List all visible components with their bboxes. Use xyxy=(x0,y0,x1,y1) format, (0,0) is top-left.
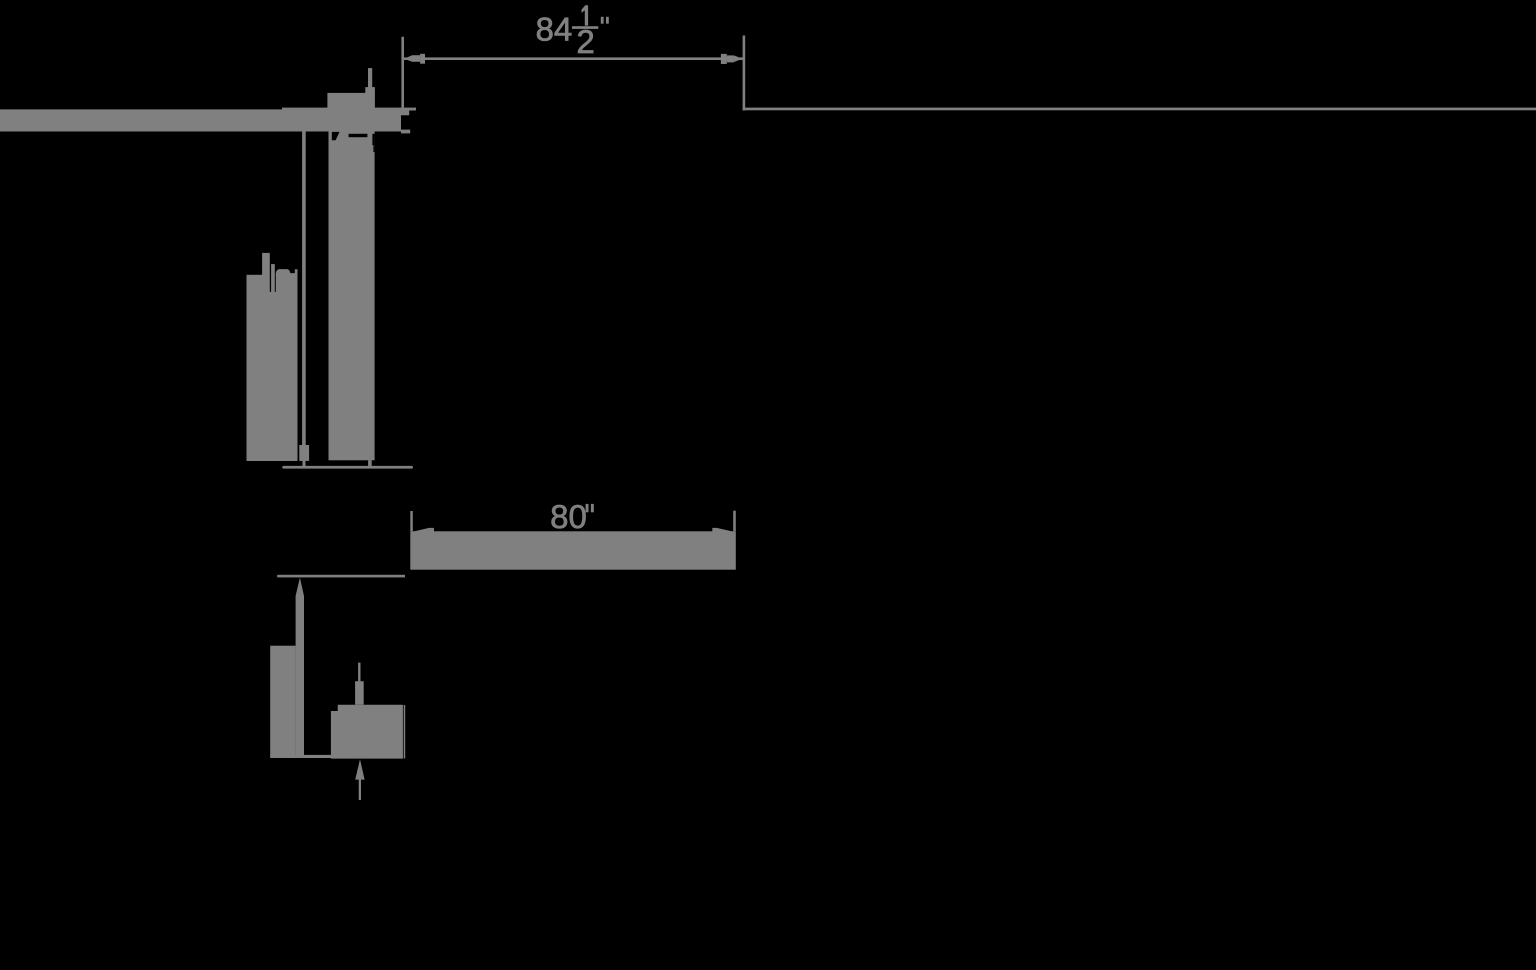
jamb slit 1 (black) xyxy=(270,275,271,292)
up arrow shaft xyxy=(359,779,361,800)
fraction bar xyxy=(572,26,598,29)
extension line left of 84.5 dim xyxy=(401,37,404,109)
tick right (80 dim) xyxy=(733,511,736,532)
track right end upper tab xyxy=(401,110,409,115)
guide top line xyxy=(277,575,405,578)
fraction numerator 1 xyxy=(582,5,589,25)
door panel xyxy=(329,132,375,461)
arrowhead right (84.5 dim) xyxy=(734,55,743,62)
door height dimension line xyxy=(302,132,306,446)
track header bar main xyxy=(0,109,401,131)
hanger roller block xyxy=(327,93,375,109)
hanger bolt xyxy=(368,68,372,88)
arrowhead left (80 dim) xyxy=(414,528,435,532)
door hanger slot (black) xyxy=(349,134,368,137)
jamb thin strip xyxy=(271,264,275,294)
door height arrowhead (down) xyxy=(299,445,309,461)
pointed post xyxy=(296,578,304,756)
door top-right notch lower (black) xyxy=(373,145,374,152)
track plan bar 80 xyxy=(410,531,736,569)
floor line xyxy=(282,466,413,469)
guide pin thin xyxy=(358,663,360,682)
inch marks of 80 xyxy=(586,504,589,512)
door top-right notch (black) xyxy=(372,134,374,145)
door top-left notch (black) xyxy=(332,132,340,140)
floor guide body xyxy=(331,705,403,759)
jamb moulding curve xyxy=(276,269,298,276)
tick left (80 dim) xyxy=(410,511,413,531)
dim text 84 xyxy=(537,17,552,40)
hanger nub xyxy=(365,87,375,94)
extension line right of 84.5 dim xyxy=(743,36,746,111)
guide body edge strip xyxy=(404,705,406,758)
dimension line 84.5 xyxy=(404,57,743,60)
guide base lip xyxy=(270,755,338,758)
leader to floor xyxy=(303,460,306,467)
arrowhead left (84.5 dim) xyxy=(404,55,412,62)
jamb trim body xyxy=(247,275,298,461)
track top plate xyxy=(282,108,416,111)
wall line (top right) xyxy=(743,108,1536,111)
up arrowhead (guide) xyxy=(355,759,364,779)
jamb tall tab xyxy=(262,253,270,278)
fraction denominator 2 xyxy=(578,30,593,53)
guide pin rod xyxy=(355,681,364,705)
arrowhead right (80 dim) xyxy=(712,528,732,532)
guide left block xyxy=(270,646,295,756)
door bottom guide foot xyxy=(368,460,372,467)
track right end lower tongue xyxy=(401,130,410,134)
inch marks of 84.5 xyxy=(601,17,604,24)
jamb slit 2 (black) xyxy=(275,275,276,292)
dim text 80 xyxy=(552,505,567,528)
